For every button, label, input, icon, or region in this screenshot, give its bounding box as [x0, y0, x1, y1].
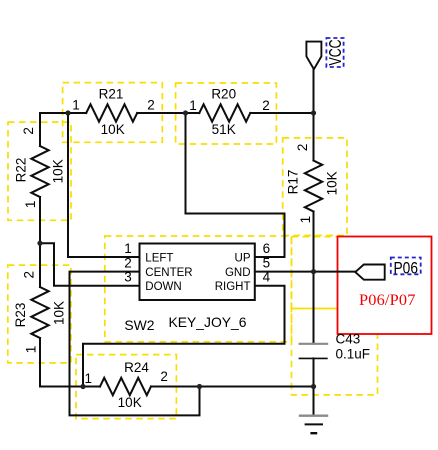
- svg-text:4: 4: [263, 270, 271, 285]
- svg-text:R17: R17: [286, 170, 301, 195]
- svg-text:10K: 10K: [325, 171, 340, 195]
- svg-text:3: 3: [124, 270, 132, 285]
- svg-text:R22: R22: [13, 158, 28, 183]
- svg-text:10K: 10K: [50, 159, 65, 183]
- svg-text:R24: R24: [124, 360, 149, 375]
- svg-text:10K: 10K: [52, 301, 67, 325]
- svg-text:P06/P07: P06/P07: [359, 290, 416, 309]
- svg-text:0.1uF: 0.1uF: [336, 347, 371, 362]
- svg-text:CENTER: CENTER: [145, 267, 192, 279]
- svg-text:2: 2: [262, 98, 270, 113]
- svg-text:2: 2: [147, 97, 155, 112]
- svg-text:1: 1: [189, 98, 197, 113]
- svg-text:SW2: SW2: [124, 317, 154, 333]
- svg-text:1: 1: [23, 201, 38, 209]
- svg-text:2: 2: [295, 144, 310, 152]
- svg-text:VCC: VCC: [325, 40, 345, 66]
- svg-text:2: 2: [160, 369, 168, 384]
- svg-text:KEY_JOY_6: KEY_JOY_6: [169, 314, 247, 330]
- svg-text:5: 5: [263, 256, 271, 271]
- svg-text:2: 2: [22, 271, 37, 279]
- svg-text:C43: C43: [336, 331, 361, 346]
- svg-text:2: 2: [124, 256, 132, 271]
- svg-text:6: 6: [263, 241, 271, 256]
- svg-text:R23: R23: [13, 303, 28, 328]
- svg-text:RIGHT: RIGHT: [215, 281, 251, 293]
- svg-text:1: 1: [124, 241, 132, 256]
- svg-text:10K: 10K: [101, 122, 125, 137]
- svg-text:51K: 51K: [212, 122, 236, 137]
- svg-text:10K: 10K: [118, 395, 142, 410]
- svg-text:GND: GND: [225, 267, 251, 279]
- svg-text:1: 1: [24, 346, 39, 354]
- svg-text:LEFT: LEFT: [145, 252, 173, 264]
- svg-text:R21: R21: [99, 87, 124, 102]
- svg-text:UP: UP: [235, 252, 251, 264]
- svg-text:R20: R20: [211, 87, 236, 102]
- svg-text:1: 1: [72, 97, 80, 112]
- svg-text:1: 1: [298, 216, 313, 224]
- svg-text:1: 1: [85, 371, 93, 386]
- svg-text:2: 2: [21, 127, 36, 135]
- svg-text:P06: P06: [394, 260, 419, 278]
- svg-text:DOWN: DOWN: [145, 281, 181, 293]
